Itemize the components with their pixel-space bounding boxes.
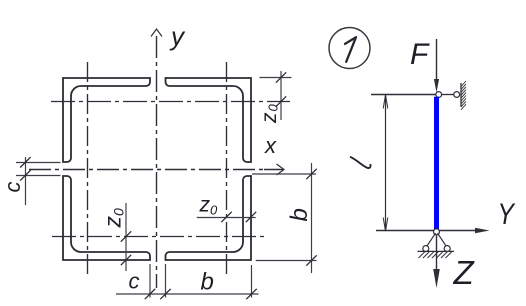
bottom pin circle [434, 229, 440, 235]
tick [246, 289, 256, 299]
dim l: dimension line [385, 95, 387, 231]
tick [121, 255, 131, 265]
svg-text:y: y [169, 21, 186, 51]
tick [306, 169, 316, 179]
tick [221, 212, 231, 222]
angle bottom-right [166, 176, 252, 260]
dim c left: dimension line [25, 157, 27, 205]
support leg left [427, 233, 436, 247]
svg-text:Y: Y [498, 197, 516, 231]
centroid axis horizontal top [51, 101, 290, 103]
centroid axis vertical left [87, 62, 89, 275]
centroid axis vertical right [226, 62, 228, 275]
dim l arrow up [383, 95, 388, 109]
ground line [418, 250, 455, 252]
svg-text:c: c [129, 269, 140, 294]
tick [20, 157, 30, 167]
force F line [436, 39, 438, 85]
support roller left [423, 246, 429, 252]
label Y [498, 197, 516, 231]
tick [160, 289, 170, 299]
dim extension right leg edge [165, 264, 167, 298]
digit 1 [345, 37, 356, 62]
tick [276, 72, 286, 82]
x axis lead-in [264, 169, 283, 171]
Z axis arrowhead [433, 269, 440, 288]
dim z0 bottom-left: dimension line [125, 203, 127, 271]
dim l arrow down [383, 218, 388, 232]
dim extension right outer corner [251, 265, 253, 298]
force F arrowhead [434, 79, 439, 93]
dim c+b bottom: extension left leg tip [149, 264, 151, 298]
tick [246, 212, 256, 222]
x axis [29, 169, 266, 171]
dim b right: extension line bottom [256, 260, 317, 262]
support roller right [444, 246, 450, 252]
angle top-right [166, 78, 252, 162]
x axis arrow [277, 164, 285, 175]
dim z0 top-right: dimension line [280, 71, 282, 120]
scheme number circle 1 [329, 28, 370, 69]
tick [121, 231, 131, 241]
dim b right: dimension line [311, 163, 313, 273]
column (blue bar) [434, 97, 439, 230]
top pin circle [436, 92, 442, 98]
ground hatching [419, 252, 453, 259]
label b (rotated) [286, 208, 313, 221]
dim b right: extension line top [252, 173, 316, 175]
y axis arrow [151, 29, 162, 37]
roller link [442, 94, 454, 96]
svg-text:b: b [286, 208, 313, 221]
svg-text:x: x [264, 133, 277, 158]
support leg right [438, 233, 447, 247]
label z0 (rotated) [100, 208, 127, 229]
y axis [156, 36, 158, 288]
tick [145, 289, 155, 299]
dim line bottom [116, 293, 259, 295]
svg-text:F: F [410, 38, 430, 71]
svg-text:c: c [0, 182, 25, 193]
dim c left: extension line lower [16, 175, 61, 177]
wall hatching [461, 81, 466, 110]
top horizontal line [371, 94, 436, 96]
dim z0 top-right: extension line from top edge [260, 77, 292, 79]
svg-text:Z: Z [453, 254, 476, 291]
label l (script, rotated) [350, 157, 371, 168]
roller circle [454, 92, 460, 98]
Y axis line [376, 230, 476, 232]
dim c left: extension line upper [16, 162, 61, 164]
Z axis line [436, 235, 438, 271]
label c (rotated) [0, 182, 25, 193]
angle top-left [63, 78, 150, 162]
label z0 (rotated) [258, 104, 281, 125]
Y axis arrowhead [475, 228, 490, 234]
angle bottom-left [63, 176, 150, 260]
svg-text:b: b [201, 269, 214, 296]
centroid axis horizontal bottom [52, 236, 264, 238]
tick [306, 255, 316, 265]
tick [276, 96, 286, 106]
wall line [460, 83, 462, 107]
dim z0 bottom-right: dimension line [197, 217, 256, 219]
tick [20, 170, 30, 180]
